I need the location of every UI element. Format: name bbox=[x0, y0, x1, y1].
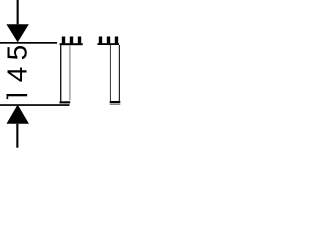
svg-text:45: 45 bbox=[1, 39, 32, 83]
